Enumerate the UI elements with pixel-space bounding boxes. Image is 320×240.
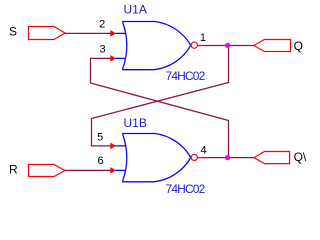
pin 1 red stub	[198, 45, 204, 47]
svg-text:5: 5	[97, 132, 103, 144]
pin 6 arrowhead	[110, 167, 116, 174]
svg-text:1: 1	[200, 32, 206, 44]
junction node Q\	[225, 155, 230, 160]
pin 4 red stub	[198, 157, 204, 159]
wire U1B output to port Q\	[203, 157, 254, 159]
svg-text:6: 6	[97, 155, 103, 167]
svg-text:74HC02: 74HC02	[166, 69, 206, 83]
NOR gate U1A body	[116, 22, 191, 70]
wire pin 3 to node Q\ (horiz, corner, diagonal, drop to junction)	[91, 58, 229, 157]
wire S to pin 2	[65, 32, 111, 34]
svg-text:3: 3	[99, 43, 105, 55]
svg-text:74HC02: 74HC02	[166, 182, 206, 196]
port Q\	[254, 152, 290, 164]
svg-text:Q\: Q\	[294, 150, 307, 164]
NOR gate U1B body	[116, 134, 191, 182]
svg-text:2: 2	[99, 19, 105, 31]
port R	[29, 165, 66, 177]
pin 5 arrowhead	[110, 143, 116, 150]
svg-text:R: R	[9, 163, 18, 177]
pin 3 arrowhead	[110, 55, 116, 62]
junction node Q	[225, 43, 230, 48]
port Q	[254, 40, 291, 52]
svg-text:Q: Q	[294, 39, 303, 53]
svg-text:S: S	[9, 25, 17, 39]
port S	[29, 27, 66, 40]
svg-text:U1B: U1B	[124, 116, 147, 130]
svg-text:U1A: U1A	[124, 3, 147, 17]
wire U1A output to port Q	[203, 45, 254, 47]
wire R to pin 6	[65, 169, 111, 171]
U1B output bubble pin 4	[191, 154, 197, 160]
U1A output bubble pin 1	[191, 42, 197, 48]
pin 2 arrowhead	[110, 30, 116, 37]
svg-text:4: 4	[201, 145, 207, 157]
wire node Q down-left to pin 5	[92, 46, 229, 146]
